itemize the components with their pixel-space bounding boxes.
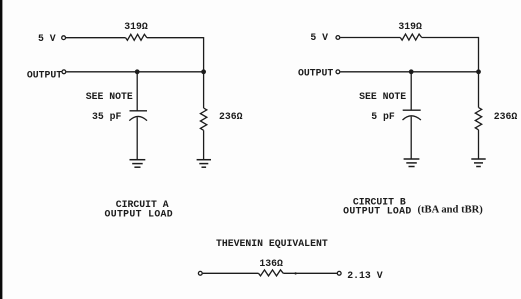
svg-text:2.13 V: 2.13 V xyxy=(347,270,382,281)
resistor R2 value label 236ohm (circuit A) xyxy=(219,111,243,122)
junction capacitor node (circuit B) xyxy=(409,69,414,74)
capacitor C1 35pF (circuit A) xyxy=(129,111,147,121)
terminal 5V (circuit B) xyxy=(336,36,340,40)
wire R2 to ground (circuit A) xyxy=(203,130,205,159)
caption CIRCUIT A xyxy=(116,199,169,210)
wire 5V to R3 (circuit B) xyxy=(340,37,400,39)
wire C2 to ground (circuit B) xyxy=(410,117,412,159)
wire R5 to right terminal (thevenin) xyxy=(283,272,337,274)
capacitor C1 value label 35 pF (circuit A) xyxy=(92,111,122,122)
wire output node down to R4 (circuit B) xyxy=(478,72,480,108)
wire C1 to ground (circuit A) xyxy=(136,117,138,159)
terminal OUTPUT (circuit B) xyxy=(336,70,340,74)
resistor R1 319ohm (circuit A) xyxy=(126,34,147,40)
svg-text:5 V: 5 V xyxy=(310,32,328,43)
svg-text:319Ω: 319Ω xyxy=(124,21,148,32)
resistor R1 value label 319ohm (circuit A) xyxy=(124,21,148,32)
wire 5V to R1 (circuit A) xyxy=(66,37,126,39)
svg-text:35 pF: 35 pF xyxy=(92,111,122,122)
svg-text:136Ω: 136Ω xyxy=(259,258,283,269)
terminal OUTPUT (circuit A) xyxy=(62,70,66,74)
capacitor C2 value label 5 pF (circuit B) xyxy=(371,111,395,122)
wire OUTPUT line (circuit A) xyxy=(66,71,203,73)
ground below R2 (circuit A) xyxy=(197,160,211,168)
wire corner down to output node (circuit B) xyxy=(478,37,480,72)
terminal 5V (circuit A) xyxy=(62,36,66,40)
resistor R2 236ohm (circuit A) xyxy=(200,108,206,130)
junction speck on wire (thevenin) xyxy=(294,272,296,274)
caption THEVENIN EQUIVALENT xyxy=(216,238,328,249)
wire OUTPUT line (circuit B) xyxy=(340,71,478,73)
node OUTPUT label (circuit B) xyxy=(298,67,333,78)
caption OUTPUT LOAD (circuit A) xyxy=(105,208,174,219)
note label SEE NOTE (circuit B) xyxy=(359,91,406,102)
junction capacitor node (circuit A) xyxy=(135,69,140,74)
svg-text:5 pF: 5 pF xyxy=(371,111,395,122)
caption (tBA and tBR) annotation xyxy=(418,204,484,215)
wire R1 to corner (circuit A) xyxy=(147,37,204,39)
wire R3 to corner (circuit B) xyxy=(422,37,479,39)
resistor R3 value label 319ohm (circuit B) xyxy=(398,21,422,32)
svg-text:OUTPUT: OUTPUT xyxy=(27,69,62,80)
svg-text:236Ω: 236Ω xyxy=(219,111,243,122)
terminal right (thevenin) xyxy=(337,271,341,275)
node 5V label (circuit B) xyxy=(310,32,328,43)
left border bar xyxy=(0,0,2,299)
svg-text:236Ω: 236Ω xyxy=(494,111,518,122)
svg-text:319Ω: 319Ω xyxy=(398,21,422,32)
wire corner down to output node (circuit A) xyxy=(203,37,205,72)
resistor R3 319ohm (circuit B) xyxy=(400,34,421,40)
wire output node down to C2 (circuit B) xyxy=(410,72,412,110)
ground below C1 (circuit A) xyxy=(130,160,146,168)
wire left terminal to R5 (thevenin) xyxy=(203,272,259,274)
note label SEE NOTE (circuit A) xyxy=(86,91,133,102)
wire output node down to C1 (circuit A) xyxy=(136,72,138,111)
wire R4 to ground (circuit B) xyxy=(478,130,480,159)
resistor R5 value label 136ohm (thevenin) xyxy=(259,258,283,269)
terminal left (thevenin) xyxy=(198,271,202,275)
svg-text:THEVENIN EQUIVALENT: THEVENIN EQUIVALENT xyxy=(216,238,328,249)
ground below C2 (circuit B) xyxy=(404,159,420,167)
node 2.13V label (thevenin) xyxy=(347,270,382,281)
junction resistor node (circuit A) xyxy=(201,69,206,74)
resistor R4 value label 236ohm (circuit B) xyxy=(494,111,518,122)
caption OUTPUT LOAD (circuit B) xyxy=(343,206,412,217)
capacitor C2 5pF (circuit B) xyxy=(403,110,421,120)
resistor R4 236ohm (circuit B) xyxy=(475,108,481,130)
svg-text:5 V: 5 V xyxy=(38,33,56,44)
svg-text:SEE NOTE: SEE NOTE xyxy=(86,91,133,102)
svg-text:OUTPUT LOAD: OUTPUT LOAD xyxy=(105,208,174,219)
caption CIRCUIT B xyxy=(353,197,406,208)
node OUTPUT label (circuit A) xyxy=(27,69,62,80)
resistor R5 136ohm (thevenin) xyxy=(259,270,284,276)
node 5V label (circuit A) xyxy=(38,33,56,44)
wire output node down to R2 (circuit A) xyxy=(203,72,205,108)
svg-text:OUTPUT: OUTPUT xyxy=(298,67,333,78)
junction resistor node (circuit B) xyxy=(476,69,481,74)
svg-text:(tBA and tBR): (tBA and tBR) xyxy=(418,204,484,215)
ground below R4 (circuit B) xyxy=(471,159,485,167)
svg-text:OUTPUT LOAD: OUTPUT LOAD xyxy=(343,206,412,217)
svg-text:SEE NOTE: SEE NOTE xyxy=(359,91,406,102)
